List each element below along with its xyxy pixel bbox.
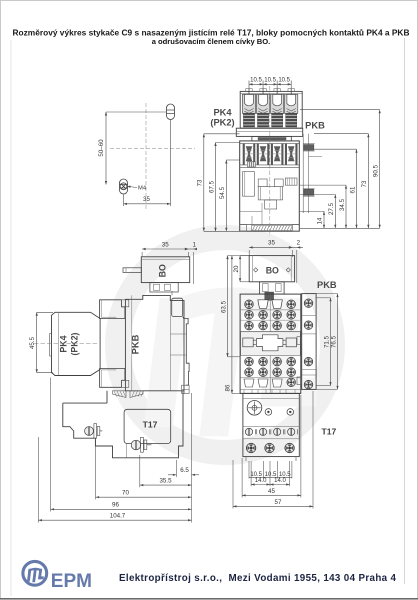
T17 left clamp screw bbox=[85, 427, 94, 436]
PK4 block outline bbox=[240, 91, 302, 128]
svg-text:10.5: 10.5 bbox=[265, 472, 277, 478]
dimension 70 bbox=[96, 496, 192, 498]
PKB strip screws bbox=[304, 299, 313, 308]
svg-text:76.5: 76.5 bbox=[330, 335, 337, 348]
contactor body outline bbox=[240, 141, 300, 231]
dimension 35.5 bbox=[140, 484, 192, 486]
svg-text:57: 57 bbox=[275, 499, 282, 506]
contactor terminal row bbox=[240, 142, 300, 144]
T17 bottom feet bbox=[245, 457, 247, 461]
PK4 terminal columns bbox=[242, 94, 255, 113]
view C side elevation bbox=[29, 241, 199, 522]
svg-text:20: 20 bbox=[233, 265, 240, 272]
svg-text:BO: BO bbox=[266, 265, 279, 275]
view A mounting-hole diagram bbox=[98, 103, 195, 210]
view B contactor front elevation bbox=[197, 78, 381, 236]
dimension 35 horizontal bbox=[124, 203, 171, 205]
terminal row 4 bbox=[245, 357, 254, 366]
svg-text:70: 70 bbox=[122, 490, 129, 497]
terminal row 3 bbox=[245, 321, 254, 330]
left dimension extensions view B bbox=[204, 133, 240, 135]
svg-text:1: 1 bbox=[192, 241, 196, 248]
upper left step block bbox=[100, 300, 125, 319]
dimension 61 right bbox=[356, 149, 358, 228]
T17 bottom screws bbox=[246, 443, 256, 453]
left dimensions view D extensions bbox=[228, 255, 249, 257]
svg-text:10.5: 10.5 bbox=[250, 78, 262, 84]
T17 side outline bbox=[63, 391, 183, 458]
contactor front body bbox=[240, 294, 301, 393]
svg-text:PKB: PKB bbox=[131, 334, 141, 354]
right dimensions 71.5 and 76.5 bbox=[316, 297, 330, 299]
svg-text:14.0: 14.0 bbox=[274, 478, 286, 484]
svg-text:(PK2): (PK2) bbox=[210, 118, 234, 128]
svg-text:45: 45 bbox=[268, 488, 275, 495]
base feet bbox=[240, 225, 247, 232]
left margin line bbox=[10, 40, 12, 596]
svg-text:14: 14 bbox=[317, 217, 324, 224]
svg-text:PKB: PKB bbox=[305, 120, 325, 130]
svg-text:PKB: PKB bbox=[317, 280, 337, 290]
dimension 50-60 vertical bbox=[105, 112, 107, 185]
dimension 67.5 left bbox=[215, 143, 217, 232]
dimension 73 left bbox=[203, 134, 205, 232]
body internals left box bbox=[243, 172, 255, 197]
dimension 73 right bbox=[367, 134, 369, 229]
BO plug dark bbox=[265, 292, 274, 300]
T17 small buttons bbox=[265, 409, 272, 416]
svg-text:Elektropřístroj s.r.o., Mezi: Elektropřístroj s.r.o., Mezi Vodami 1955… bbox=[119, 573, 397, 584]
bottom dimensions view D bbox=[248, 461, 250, 479]
svg-text:90.5: 90.5 bbox=[373, 164, 380, 177]
centerline PK4 dashed bbox=[34, 342, 98, 344]
svg-text:35: 35 bbox=[162, 241, 169, 248]
svg-text:T17: T17 bbox=[143, 420, 158, 430]
svg-text:PK4: PK4 bbox=[213, 108, 232, 118]
dimension 63.5 view D bbox=[227, 256, 229, 357]
dimension 45.5 bbox=[37, 311, 53, 313]
PKB strip view D bbox=[302, 294, 316, 390]
svg-text:86: 86 bbox=[225, 384, 232, 391]
svg-text:10.5: 10.5 bbox=[250, 472, 262, 478]
svg-text:14.0: 14.0 bbox=[255, 478, 267, 484]
dimension 20 BO bbox=[240, 255, 249, 257]
dimension 104.7 bbox=[38, 519, 191, 521]
bottom clip screw right bbox=[182, 385, 189, 393]
T17 front block bbox=[243, 393, 299, 456]
svg-text:27.5: 27.5 bbox=[328, 202, 335, 215]
dimension 27.5 right bbox=[334, 194, 336, 228]
svg-text:67.5: 67.5 bbox=[208, 180, 215, 193]
bottom page edge bbox=[0, 598, 418, 600]
right dimension extensions view B bbox=[300, 109, 380, 111]
watermark EPM logo bbox=[117, 237, 332, 452]
svg-text:35: 35 bbox=[143, 196, 150, 203]
svg-text:6.5: 6.5 bbox=[180, 467, 189, 474]
terminal row 1 bbox=[245, 300, 254, 309]
right mounting rail profile bbox=[172, 298, 183, 316]
PK4 flange bbox=[236, 128, 302, 136]
svg-text:10.5: 10.5 bbox=[278, 78, 290, 84]
svg-text:Rozměrový výkres stykače C9 s: Rozměrový výkres stykače C9 s nasazeným … bbox=[13, 27, 410, 37]
centerline horizontal dashed bbox=[110, 148, 195, 150]
BO lower connector bbox=[150, 283, 178, 292]
middle band bbox=[241, 332, 301, 356]
coil terminal small block bbox=[247, 162, 255, 167]
svg-text:35.5: 35.5 bbox=[159, 478, 172, 485]
svg-text:T17: T17 bbox=[322, 426, 337, 436]
side body main slab bbox=[125, 295, 184, 390]
svg-text:34.5: 34.5 bbox=[339, 198, 346, 211]
dimension 96 bbox=[51, 508, 192, 510]
right margin line bbox=[404, 38, 406, 584]
dimension 34.5 right bbox=[345, 185, 347, 228]
dimension 35 and 2 top view D bbox=[248, 250, 250, 257]
PKB connector tabs to body bbox=[297, 337, 302, 345]
svg-text:73: 73 bbox=[197, 179, 204, 186]
BO neck bbox=[259, 282, 284, 294]
lower left step block bbox=[100, 369, 125, 388]
svg-text:2: 2 bbox=[297, 240, 301, 247]
T17 bottom clamp screw bbox=[131, 440, 141, 450]
dimension 14.0 pair bbox=[250, 461, 252, 486]
svg-text:(PK2): (PK2) bbox=[70, 332, 80, 355]
extension lines bottom bbox=[123, 195, 125, 207]
dimension 14 right bbox=[323, 211, 325, 228]
body internals center structure bbox=[258, 179, 267, 187]
BO box side view bbox=[141, 257, 189, 283]
view C bottom dimension extensions bbox=[37, 437, 39, 523]
svg-text:EPM: EPM bbox=[51, 571, 92, 592]
M4 screw in bottom hole bbox=[120, 183, 127, 190]
centerline vertical view B bbox=[269, 86, 271, 236]
svg-text:35: 35 bbox=[268, 240, 275, 247]
BO box front bbox=[249, 256, 294, 282]
bottom clamp area bbox=[244, 379, 254, 387]
dimension 54.5 left bbox=[225, 160, 227, 231]
svg-text:96: 96 bbox=[112, 502, 119, 509]
dimension 90.5 right bbox=[379, 110, 381, 229]
hole slot top right bbox=[167, 104, 175, 120]
svg-text:45.5: 45.5 bbox=[29, 336, 36, 349]
base hatched strip bbox=[252, 226, 293, 231]
svg-text:73: 73 bbox=[361, 180, 368, 187]
T17 inner panel bbox=[124, 409, 171, 443]
BO wire stub bbox=[123, 268, 141, 273]
BO screws diamonds bbox=[254, 268, 258, 272]
body lower lines bbox=[240, 210, 262, 212]
terminal row 2 bbox=[245, 310, 254, 319]
svg-text:61: 61 bbox=[349, 186, 356, 193]
dimension 45 bbox=[241, 458, 243, 498]
body internals right hatched box bbox=[285, 178, 297, 185]
dimension 86 view D bbox=[231, 256, 233, 394]
svg-text:M4: M4 bbox=[138, 186, 147, 192]
svg-text:10.5: 10.5 bbox=[264, 78, 276, 84]
svg-text:54.5: 54.5 bbox=[219, 186, 226, 199]
dimension 6.5 bbox=[168, 474, 176, 476]
dimension 10.5 pitch top bbox=[249, 83, 291, 85]
svg-text:a odrušovacím členem cívky BO.: a odrušovacím členem cívky BO. bbox=[152, 37, 271, 46]
dimension 57 bbox=[232, 460, 234, 509]
right side PKB connector strip bbox=[302, 134, 304, 213]
svg-text:63.5: 63.5 bbox=[220, 300, 227, 313]
T17 adjust dial bbox=[247, 401, 262, 416]
svg-text:50–60: 50–60 bbox=[98, 139, 105, 157]
hole slot bottom left bbox=[120, 179, 128, 194]
PK4 neck latch bbox=[252, 136, 291, 141]
svg-text:PK4: PK4 bbox=[59, 335, 69, 352]
svg-text:71.5: 71.5 bbox=[323, 335, 330, 348]
T17 middle oval screws row bbox=[243, 425, 299, 427]
svg-text:104.7: 104.7 bbox=[110, 513, 126, 520]
extension line top bbox=[106, 111, 166, 113]
hatched mounting feet bbox=[113, 391, 127, 398]
PK4 block side view bbox=[52, 312, 101, 375]
svg-text:BO: BO bbox=[158, 264, 168, 277]
dimension 35 top view C bbox=[141, 252, 143, 257]
view D front elevation with T17 bbox=[220, 240, 338, 509]
footer EPM logo bbox=[23, 561, 47, 585]
centerline vertical dashed bbox=[145, 103, 147, 210]
terminal row 5 bbox=[245, 368, 254, 377]
